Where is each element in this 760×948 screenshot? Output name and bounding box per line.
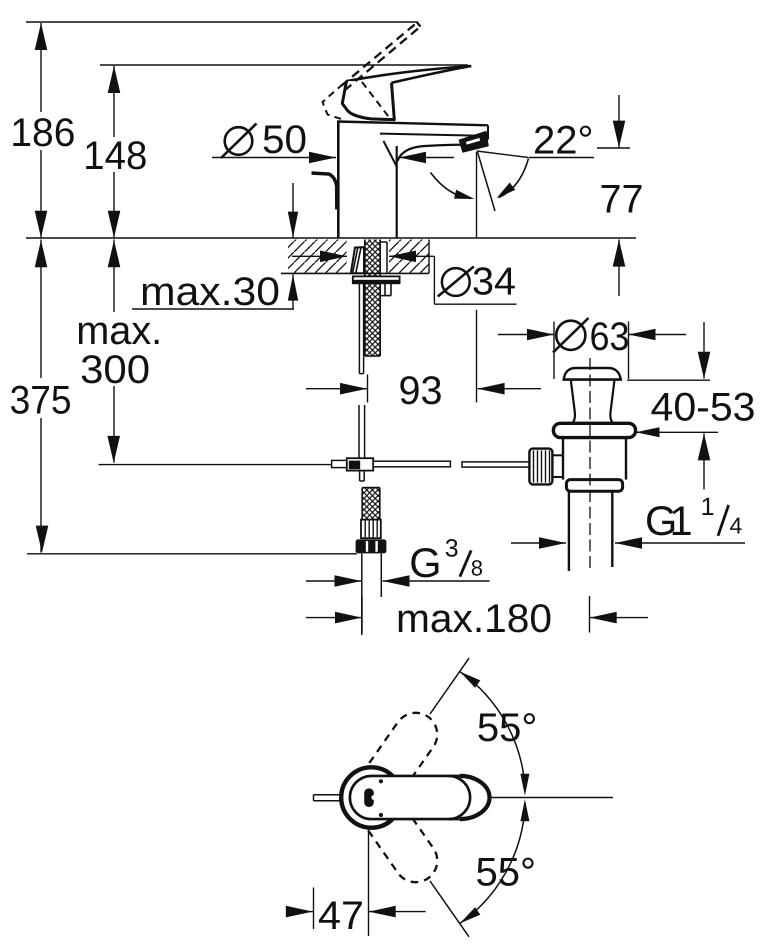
svg-text:22°: 22° [533,118,594,162]
svg-text:148: 148 [83,134,147,178]
svg-text:55°: 55° [477,706,538,750]
svg-text:34: 34 [472,260,516,303]
svg-text:4: 4 [730,513,743,539]
svg-text:G: G [409,539,441,586]
svg-text:max.180: max.180 [396,597,552,641]
svg-text:8: 8 [471,556,483,581]
svg-text:63: 63 [590,315,630,359]
svg-text:77: 77 [600,178,644,222]
svg-text:93: 93 [399,369,443,413]
svg-text:max.30: max.30 [140,270,280,314]
svg-text:55°: 55° [476,851,537,895]
svg-text:40-53: 40-53 [651,385,756,429]
svg-text:47: 47 [318,894,364,938]
svg-text:3: 3 [445,535,459,563]
svg-text:1: 1 [670,497,693,544]
svg-text:375: 375 [10,379,72,423]
svg-text:1: 1 [701,493,715,521]
svg-text:300: 300 [80,348,150,392]
svg-text:50: 50 [262,118,307,162]
svg-text:186: 186 [10,111,75,155]
svg-text:max.: max. [76,309,162,353]
